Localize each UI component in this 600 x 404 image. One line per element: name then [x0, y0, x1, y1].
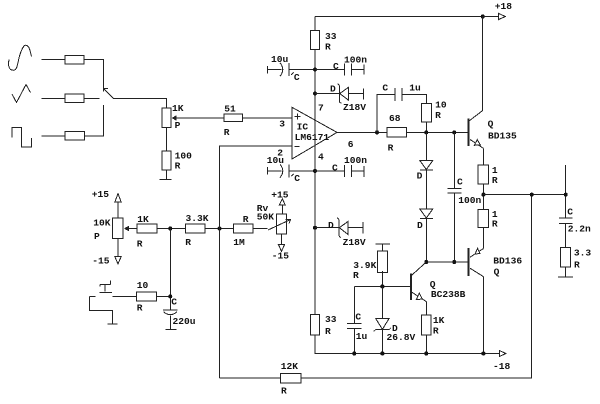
wire rail to R33 top: [314, 17, 316, 31]
wire switch to pot 1K: [113, 98, 166, 108]
op-amp IC LM6171: [292, 107, 337, 159]
svg-text:+15: +15: [271, 189, 289, 200]
wire between diodes: [425, 170, 427, 209]
wire +18 rail: [315, 16, 483, 18]
wire pot wiper to R 51: [177, 117, 225, 119]
node zener bottom junction: [380, 352, 384, 356]
resistor R 3.9K: [353, 244, 390, 281]
svg-text:C: C: [294, 173, 300, 184]
svg-text:220u: 220u: [173, 316, 196, 327]
svg-text:C: C: [457, 176, 463, 187]
svg-text:LM6171: LM6171: [295, 132, 330, 143]
resistor R 10: [421, 100, 447, 123]
selector switch arm: [103, 88, 113, 98]
svg-text:10: 10: [137, 280, 149, 291]
svg-text:R: R: [243, 214, 249, 225]
svg-text:C: C: [332, 163, 338, 174]
power -18 arrow: [493, 351, 511, 373]
pin 6 label: [348, 139, 354, 150]
resistor R input 3: [65, 132, 84, 141]
svg-text:R: R: [325, 41, 331, 52]
svg-text:+18: +18: [495, 1, 513, 12]
resistor R input 2: [65, 94, 84, 103]
svg-text:1u: 1u: [409, 82, 421, 93]
node BC base junction: [380, 285, 384, 289]
svg-text:C: C: [567, 206, 573, 217]
power -15 arrow left: [92, 239, 121, 267]
resistor R 33 upper: [311, 31, 337, 53]
svg-text:1M: 1M: [233, 237, 245, 248]
wire R10 to rail: [425, 122, 427, 132]
svg-text:Z18V: Z18V: [343, 102, 366, 113]
svg-text:R: R: [137, 302, 143, 313]
wire pot to R 100: [166, 128, 168, 152]
resistor R 3.3K: [185, 213, 208, 248]
pushbutton T: [89, 281, 136, 297]
svg-text:-15: -15: [272, 251, 290, 262]
svg-text:R: R: [353, 270, 359, 281]
svg-text:+15: +15: [92, 189, 110, 200]
wire R51 to op-amp pin 3: [243, 117, 293, 119]
resistor R 100: [162, 150, 192, 171]
resistor R 1K: [137, 214, 157, 249]
power +18 arrow: [483, 1, 513, 20]
capacitor C 100n upper: [315, 55, 367, 76]
wire R2 open contact: [84, 97, 100, 99]
wire R33 to -18 rail: [315, 335, 500, 354]
svg-text:R: R: [281, 385, 287, 396]
svg-text:100n: 100n: [344, 55, 367, 66]
capacitor C 220u: [163, 296, 196, 329]
svg-text:100n: 100n: [344, 155, 367, 166]
wire 3.9K to BC238B base: [354, 271, 410, 287]
resistor R 1M: [233, 214, 253, 248]
node zener2 junction: [313, 226, 317, 230]
svg-text:1u: 1u: [356, 331, 368, 342]
node feedback takeoff: [530, 193, 534, 197]
svg-text:-15: -15: [92, 256, 110, 267]
svg-text:R: R: [185, 237, 191, 248]
node B junction: [168, 294, 172, 298]
svg-text:10K: 10K: [93, 217, 111, 228]
svg-text:7: 7: [318, 103, 324, 114]
supply rail vertical through op-amp: [314, 50, 316, 315]
node 1u bottom junction: [352, 352, 356, 356]
svg-text:R: R: [137, 238, 143, 249]
square wave source symbol: [12, 128, 32, 148]
svg-text:1: 1: [492, 165, 498, 176]
node 100n top: [452, 130, 456, 134]
svg-text:D: D: [417, 220, 423, 231]
wire BD135 emitter to 1R: [482, 148, 484, 165]
svg-text:Z18V: Z18V: [343, 237, 366, 248]
svg-text:1K: 1K: [137, 214, 149, 225]
capacitor C 100n mid: [448, 132, 482, 262]
svg-text:IC: IC: [297, 122, 309, 133]
wire 1M to trimmer: [253, 228, 268, 230]
diode D bias 2: [417, 209, 433, 231]
diode D 26.8V zener: [374, 287, 416, 354]
pin 7 label: [318, 103, 324, 114]
svg-text:C: C: [294, 72, 300, 83]
node mid 100n junction: [452, 260, 456, 264]
pin 2 label: [277, 147, 283, 158]
svg-text:R: R: [388, 142, 394, 153]
svg-text:51: 51: [224, 103, 236, 114]
diode D bias 1: [417, 132, 433, 181]
node output stub junction: [564, 193, 568, 197]
svg-text:BD136: BD136: [493, 255, 522, 266]
capacitor C 1u compensation: [377, 82, 426, 132]
svg-text:4: 4: [318, 151, 324, 162]
svg-text:R: R: [175, 160, 181, 171]
node zener1 junction: [313, 92, 317, 96]
wire diode2 to mid node: [425, 218, 427, 262]
wire mid node to BD136 base: [426, 261, 467, 263]
resistor R 12K: [281, 361, 301, 396]
pin 4 label: [318, 151, 324, 162]
resistor R 33 lower: [311, 314, 337, 337]
transistor Q BD136: [469, 228, 523, 278]
node output tap junction: [375, 130, 379, 134]
diode D Z18V lower: [315, 218, 366, 248]
node pin7 decoupling junction: [313, 68, 317, 72]
node feedback junction: [218, 227, 222, 231]
svg-text:C: C: [171, 296, 177, 307]
wire node A down to node B: [169, 229, 171, 310]
svg-text:68: 68: [389, 113, 401, 124]
diode D Z18V upper: [315, 83, 366, 113]
svg-text:BD135: BD135: [488, 130, 517, 141]
resistor R input 1: [65, 55, 84, 64]
capacitor C 1u lower: [347, 287, 368, 354]
wire square to R: [42, 135, 66, 137]
wire BC emitter to 1K: [425, 302, 427, 315]
svg-text:50K: 50K: [257, 212, 275, 223]
resistor R 68: [387, 113, 407, 154]
wire feedback pin 2: [220, 146, 293, 378]
resistor R 1 lower: [478, 209, 498, 230]
svg-text:D: D: [330, 83, 336, 94]
wire 12K to output node: [301, 195, 532, 378]
node output terminal stub: [565, 165, 567, 218]
wire BD135 collector to +18: [482, 17, 484, 111]
svg-text:R: R: [574, 259, 580, 270]
svg-text:C: C: [333, 61, 339, 72]
ground bar under R100: [160, 170, 172, 180]
wire output stage bottom feedback: [220, 377, 281, 379]
potentiometer P 10K: [93, 217, 129, 242]
ground bar output: [558, 267, 573, 277]
trimmer Rv 50K: [257, 203, 291, 234]
capacitor C 10u lower: [267, 155, 315, 184]
node 1K bottom junction: [424, 352, 428, 356]
wire 68 to base node: [407, 131, 469, 133]
svg-text:3.3K: 3.3K: [186, 213, 209, 224]
svg-text:R: R: [492, 218, 498, 229]
capacitor C 100n lower: [315, 155, 367, 177]
capacitor C 2.2n: [559, 206, 591, 247]
node mid diode junction: [424, 260, 428, 264]
svg-text:R: R: [325, 326, 331, 337]
svg-text:10: 10: [435, 100, 447, 111]
triangle wave source symbol: [12, 85, 31, 103]
wire triangle to R: [42, 97, 66, 99]
node pin4 decoupling junction: [313, 169, 317, 173]
node diode chain top: [424, 130, 428, 134]
ground path of pushbutton: [89, 297, 117, 325]
resistor R 1 upper: [478, 165, 498, 186]
svg-text:D: D: [417, 170, 423, 181]
wire BD136 collector to -18: [482, 277, 484, 354]
svg-text:Q: Q: [494, 266, 500, 277]
wire 3.3K to 1M: [205, 228, 233, 230]
power +15 arrow left: [92, 189, 121, 218]
svg-text:C: C: [355, 311, 361, 322]
svg-text:3.3: 3.3: [574, 248, 592, 259]
svg-text:10u: 10u: [271, 54, 289, 65]
svg-text:P: P: [175, 120, 181, 131]
wire R10 to node B: [157, 295, 171, 297]
svg-text:R: R: [433, 326, 439, 337]
svg-text:3: 3: [279, 119, 285, 130]
wire output node row: [483, 194, 565, 196]
capacitor C 10u upper: [268, 54, 316, 83]
wire 1K to -18 rail: [425, 335, 427, 353]
svg-text:100n: 100n: [458, 195, 481, 206]
node output junction: [481, 193, 485, 197]
svg-text:Q: Q: [430, 279, 436, 290]
svg-text:2.2n: 2.2n: [568, 224, 591, 235]
svg-text:26.8V: 26.8V: [387, 332, 416, 343]
node +18 junction: [481, 15, 485, 19]
svg-text:R: R: [435, 110, 441, 121]
svg-text:33: 33: [325, 31, 337, 42]
power +15 arrow right: [271, 189, 289, 214]
svg-text:33: 33: [325, 314, 337, 325]
svg-text:R: R: [224, 127, 230, 138]
svg-text:10u: 10u: [267, 155, 285, 166]
wire wiper to R 1K: [129, 228, 137, 230]
resistor R 1K emitter: [421, 315, 444, 337]
svg-text:P: P: [94, 231, 100, 242]
wire R1 to switch: [84, 60, 104, 89]
transistor Q BC238B: [411, 262, 466, 302]
sine wave source symbol: [9, 45, 32, 70]
power -15 arrow right: [272, 234, 290, 261]
resistor R 51: [224, 103, 243, 138]
svg-text:-18: -18: [493, 361, 511, 372]
transistor Q BD135: [469, 111, 518, 149]
svg-text:1K: 1K: [172, 103, 184, 114]
resistor R 3.3: [561, 248, 592, 271]
wire sine to R: [42, 59, 66, 61]
wire R1K to node A: [157, 228, 186, 230]
svg-text:BC238B: BC238B: [431, 289, 466, 300]
node BD136 collector junction: [481, 352, 485, 356]
resistor R 10 button: [137, 280, 157, 313]
node A junction: [168, 227, 172, 231]
svg-text:12K: 12K: [281, 361, 299, 372]
svg-text:Q: Q: [488, 119, 494, 130]
svg-text:6: 6: [348, 139, 354, 150]
pin 3 label: [279, 119, 285, 130]
potentiometer P 1K: [162, 103, 184, 131]
svg-text:C: C: [382, 82, 388, 93]
svg-text:R: R: [492, 175, 498, 186]
wire 1R to output node: [482, 184, 484, 210]
svg-text:D: D: [328, 220, 334, 231]
wire op-amp output pin 6: [337, 131, 387, 133]
wire R3 to switch contact: [84, 105, 103, 136]
